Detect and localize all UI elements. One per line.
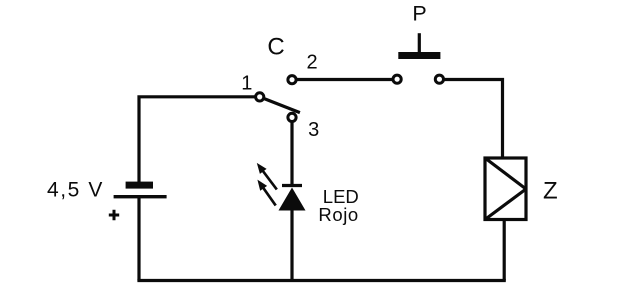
wire battery positive to switch terminal 1 [139, 97, 260, 183]
wire bottom rail [137, 279, 505, 282]
LED light emission arrow lower [257, 180, 275, 206]
svg-text:Rojo: Rojo [318, 204, 358, 225]
battery polarity label + [109, 210, 119, 220]
svg-text:3: 3 [308, 119, 319, 141]
buzzer Z diagonal top [485, 158, 526, 189]
wire buzzer Z bottom to bottom rail corner [503, 220, 506, 281]
wire push button right terminal to buzzer Z top [439, 80, 502, 159]
LED D1 triangle [279, 188, 306, 211]
LED D1 cathode bar [282, 184, 302, 187]
wire LED anode to bottom rail [290, 209, 293, 281]
switch C terminal 2 contact [288, 76, 296, 84]
wire switch terminal 2 to push button left terminal [292, 78, 397, 81]
push button P left contact [393, 75, 401, 83]
svg-text:2: 2 [306, 52, 317, 74]
battery negative plate (short thick) [126, 182, 153, 189]
wire battery negative to bottom rail [137, 197, 140, 281]
buzzer Z diagonal bottom [485, 189, 526, 220]
svg-text:P: P [412, 2, 426, 26]
LED light emission arrow upper [257, 163, 277, 190]
push button P actuator stem [418, 33, 421, 52]
switch C terminal 3 contact [288, 113, 296, 121]
push button P right contact [435, 75, 443, 83]
svg-text:Z: Z [543, 177, 558, 204]
battery positive plate (long thin) [114, 195, 167, 198]
wire switch terminal 3 to LED cathode [290, 117, 293, 185]
switch C lever from terminal 1 to terminal 3 [261, 97, 300, 112]
svg-text:1: 1 [241, 73, 252, 95]
svg-text:C: C [267, 33, 284, 60]
buzzer Z body rectangle [485, 158, 526, 220]
svg-text:4,5 V: 4,5 V [47, 179, 104, 202]
switch C terminal 1 contact [256, 93, 264, 101]
push button P actuator bar [398, 52, 440, 59]
